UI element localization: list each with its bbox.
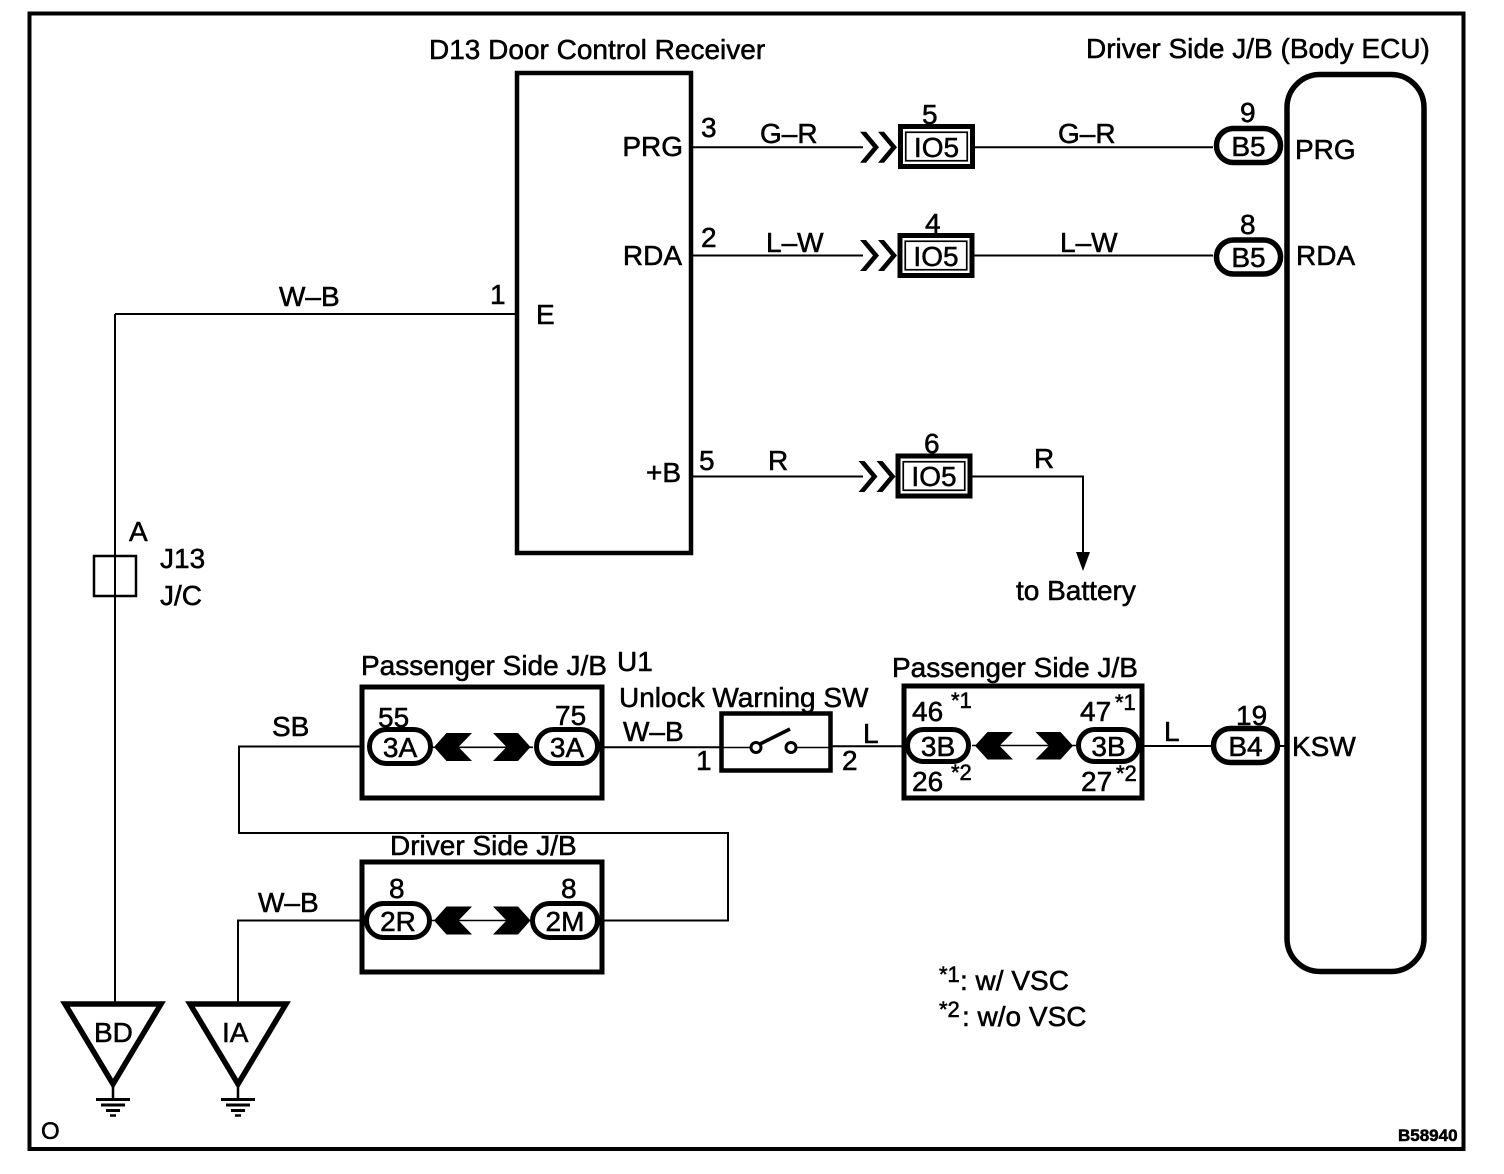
wire +B R (receiver to IO5) [691,476,863,478]
svg-text:G–R: G–R [760,118,818,149]
switch contact right [786,743,796,753]
svg-text:47: 47 [1080,696,1111,727]
J/B arrows left (box 1) [434,733,472,761]
svg-text:L: L [1164,716,1180,747]
wire W-B (J13 to receiver E pin 1) [115,313,517,315]
svg-text:B5: B5 [1231,242,1265,273]
svg-text:75: 75 [555,700,586,731]
svg-text:PRG: PRG [1295,134,1356,165]
connector 2R [367,904,430,938]
connector IO5 (pin 4) [900,236,972,276]
svg-text:U1: U1 [617,646,653,677]
wire PRG G-R (receiver to IO5) [691,146,863,148]
driver side J/B box [362,862,602,972]
svg-text:2: 2 [701,222,717,253]
passenger side J/B box 2 [904,686,1142,798]
connector 3A left [370,730,431,764]
connector 3A right [537,730,598,764]
svg-text:B4: B4 [1228,731,1262,762]
wire SB (3A to 2M) [239,747,728,921]
svg-text:26: 26 [912,766,943,797]
svg-text:RDA: RDA [623,240,682,271]
svg-text:2R: 2R [380,906,416,937]
note *1 w/ VSC [939,962,1069,996]
svg-text:3B: 3B [1091,731,1125,762]
svg-text:D13 Door Control Receiver: D13 Door Control Receiver [429,34,765,65]
svg-text:W–B: W–B [258,887,319,918]
svg-text:3A: 3A [383,732,418,763]
wire (B4 to body ECU) [1280,745,1287,747]
wire (between 3A ovals) [432,746,533,748]
wire vertical W-B (to BD ground) [114,314,116,1004]
driver side J/B (Body ECU) block [1287,75,1424,972]
ground triangle BD [65,1004,161,1084]
svg-text:9: 9 [1240,97,1256,128]
svg-text:6: 6 [924,428,940,459]
svg-text:Driver Side J/B: Driver Side J/B [390,830,577,861]
svg-text:R: R [768,445,788,476]
connector IO5 (pin 5) [901,127,973,167]
svg-text:A: A [129,516,148,547]
svg-text:3: 3 [701,112,717,143]
svg-text:*2: *2 [1116,761,1137,786]
connector B4 (pin 19) [1214,729,1278,763]
wire W-B (2R to IA ground) [238,921,364,1005]
J/B arrows left (driver box) [434,907,472,935]
wire G-R (IO5 to B5) [971,146,1213,148]
svg-text:4: 4 [925,208,941,239]
svg-text:IO5: IO5 [911,461,956,492]
svg-text:IA: IA [222,1017,249,1048]
svg-text:Passenger Side J/B: Passenger Side J/B [361,650,607,681]
svg-text:19: 19 [1236,700,1267,731]
svg-text:SB: SB [272,711,309,742]
ground symbol BD [96,1084,130,1116]
connector B5 (pin 9) [1217,129,1281,163]
svg-text:to Battery: to Battery [1016,575,1136,606]
svg-text:+B: +B [646,457,681,488]
splice arrows row 1 [860,132,897,163]
switch lever [760,729,790,744]
svg-text:5: 5 [922,99,938,130]
connector 3B right [1079,730,1139,763]
wire W-B (3A to switch) [601,746,721,748]
svg-text:L: L [863,718,879,749]
wire RDA L-W (receiver to IO5) [691,255,863,257]
connector B5 (pin 8) [1217,240,1281,274]
svg-text:O: O [41,1118,60,1145]
svg-text:W–B: W–B [279,281,340,312]
svg-text:KSW: KSW [1292,731,1356,762]
svg-text:1: 1 [696,745,712,776]
ground triangle IA [190,1004,286,1084]
svg-text:RDA: RDA [1296,240,1355,271]
connector IO5 (pin 6) [898,456,970,496]
svg-text:J13: J13 [160,543,205,574]
svg-text:2: 2 [842,745,858,776]
svg-text:8: 8 [561,873,577,904]
svg-text:G–R: G–R [1058,118,1116,149]
wire (between 2R and 2M) [432,920,530,922]
svg-text:PRG: PRG [622,131,683,162]
wire L-W (IO5 to B5) [971,255,1213,257]
wire L (3B to B4) [1142,745,1211,747]
svg-text:Driver Side J/B (Body ECU): Driver Side J/B (Body ECU) [1086,33,1430,64]
svg-text:J/C: J/C [160,580,202,611]
battery arrowhead [1076,552,1090,571]
svg-text:E: E [536,299,555,330]
J/B arrows right (box 2) [1036,732,1074,760]
switch wire stubs [721,747,831,749]
svg-text:Passenger Side J/B: Passenger Side J/B [892,652,1138,683]
svg-text:IO5: IO5 [914,132,959,163]
passenger side J/B box 1 [362,687,602,798]
svg-text:3A: 3A [550,732,585,763]
svg-text:27: 27 [1081,766,1112,797]
svg-text:1: 1 [490,279,506,310]
svg-text:2M: 2M [546,906,585,937]
svg-text:46: 46 [912,696,943,727]
note *2 w/o VSC [939,997,1086,1032]
svg-text:B58940: B58940 [1398,1126,1458,1145]
J/B arrows right (box 1) [493,733,531,761]
wire L (switch to 3B) [831,745,905,747]
door control receiver D13 box [517,73,691,553]
svg-text:W–B: W–B [623,716,684,747]
svg-text:8: 8 [1240,209,1256,240]
svg-text:B5: B5 [1231,131,1265,162]
J/B arrows left (box 2) [975,732,1013,760]
svg-text:3B: 3B [921,731,955,762]
svg-text:L–W: L–W [1060,227,1118,258]
junction connector J13 J/C box [94,556,136,596]
svg-text:5: 5 [699,445,715,476]
svg-text:L–W: L–W [766,227,824,258]
connector 3B left [908,730,969,763]
svg-text:Unlock Warning SW: Unlock Warning SW [619,682,869,713]
svg-text:R: R [1034,443,1054,474]
svg-text:*2: *2 [939,997,960,1022]
svg-text:: w/o VSC: : w/o VSC [962,1001,1086,1032]
switch contact left [751,743,761,753]
wire R (IO5 to battery) [970,477,1083,555]
svg-text:*1: *1 [1115,690,1136,715]
ground symbol IA [221,1084,255,1116]
connector 2M [533,904,598,938]
wire (between 3B ovals) [972,745,1076,747]
splice arrows row 3 [859,461,896,492]
svg-text:*1: *1 [939,962,960,987]
svg-text:*1: *1 [951,688,972,713]
svg-text:: w/ VSC: : w/ VSC [960,965,1069,996]
svg-text:8: 8 [389,873,405,904]
svg-text:IO5: IO5 [913,241,958,272]
svg-text:BD: BD [94,1017,133,1048]
splice arrows row 2 [860,240,897,271]
J/B arrows right (driver box) [493,907,531,935]
unlock warning switch U1 box [722,714,831,771]
